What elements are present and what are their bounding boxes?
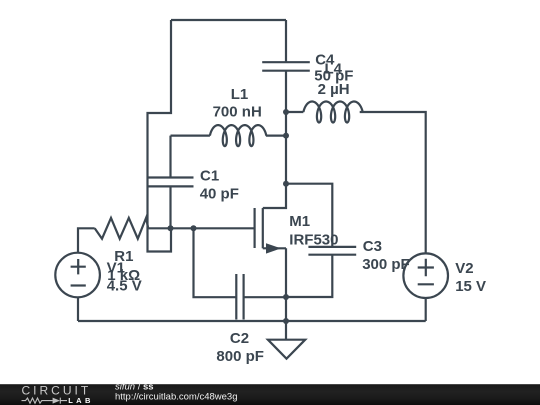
inductor L1: [171, 125, 287, 146]
svg-text:L1: L1: [231, 86, 249, 103]
svg-text:15 V: 15 V: [455, 278, 486, 295]
node junction dot C3 tap: [283, 181, 289, 187]
node junction dot L4 tap: [283, 109, 289, 115]
wire C2 right branch: [244, 296, 286, 298]
ground: [268, 340, 305, 359]
wire drain trunk: [263, 71, 286, 208]
inductor L4: [286, 102, 426, 254]
footer bar: [0, 381, 540, 405]
svg-text:300 pF: 300 pF: [362, 256, 410, 273]
svg-text:2 µH: 2 µH: [318, 81, 350, 98]
capacitor C2: [236, 274, 243, 320]
svg-text:C1: C1: [200, 168, 219, 185]
capacitor C3: [308, 247, 356, 255]
svg-text:L4: L4: [325, 60, 343, 77]
svg-text:C2: C2: [230, 330, 249, 347]
wire C3 bottom branch: [286, 255, 332, 297]
svg-text:LAB: LAB: [68, 396, 94, 405]
wire V2 bottom lead: [425, 298, 427, 321]
wire ground lead: [285, 321, 287, 340]
svg-text:http://circuitlab.com/c48we3g: http://circuitlab.com/c48we3g: [115, 391, 238, 402]
node junction dot ground rail: [283, 318, 289, 324]
voltage source V2: [403, 253, 448, 298]
svg-text:V2: V2: [455, 260, 473, 277]
node junction dot C1 gate: [168, 225, 174, 231]
svg-text:M1: M1: [289, 213, 310, 230]
wire C3 top branch: [286, 184, 332, 247]
capacitor C1: [148, 136, 194, 229]
wire V1 top lead: [78, 228, 95, 252]
node junction dot L1 tap: [283, 133, 289, 139]
wire V1 bottom lead: [77, 297, 79, 321]
wire left branch with stub: [148, 20, 172, 252]
node junction dot C2 gate: [191, 225, 197, 231]
voltage source V1: [55, 253, 100, 298]
resistor R1: [95, 218, 149, 239]
svg-text:800 pF: 800 pF: [216, 348, 264, 365]
wire gate net: [148, 227, 254, 229]
svg-text:40 pF: 40 pF: [200, 186, 239, 203]
node junction dot source: [283, 294, 289, 300]
wire C2 left branch: [194, 228, 237, 297]
svg-text:IRF530: IRF530: [289, 231, 338, 248]
svg-text:4.5 V: 4.5 V: [107, 277, 142, 294]
transistor M1: [255, 208, 286, 254]
wire top rail: [171, 19, 286, 21]
svg-text:C3: C3: [363, 238, 382, 255]
wire bottom rail: [78, 320, 426, 322]
logo resistor-diode glyph: [22, 398, 68, 404]
capacitor C4: [262, 20, 310, 71]
wire source lead: [285, 248, 287, 321]
svg-text:700 nH: 700 nH: [213, 103, 262, 120]
